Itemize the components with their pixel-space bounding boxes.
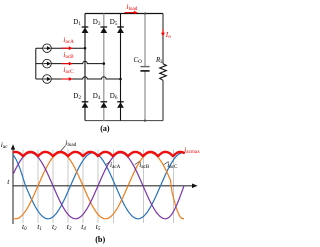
arrow i_acC: [62, 78, 70, 80]
label t4: [81, 223, 86, 232]
wire phase B with hop: [51, 61, 104, 63]
diode D1: [82, 26, 89, 28]
wire top rail: [85, 13, 163, 15]
diode D6: [117, 101, 124, 103]
axis vertical i_ac: [12, 149, 14, 224]
wire capacitor branch: [144, 14, 146, 121]
wire load branch right: [162, 14, 164, 121]
label t1: [37, 223, 42, 232]
leader i_acA: [106, 161, 111, 164]
resistor R_L zigzag: [160, 64, 167, 81]
node phase B junction: [103, 62, 106, 65]
label i_acC: [63, 66, 73, 75]
wire left bus: [35, 48, 37, 79]
label t3: [67, 223, 72, 232]
label I_o: [166, 31, 171, 40]
node phase A junction: [84, 47, 87, 50]
diode D2: [82, 101, 89, 103]
label t axis: [7, 178, 9, 186]
label C_O: [134, 58, 142, 65]
label i_load wave: [65, 139, 76, 148]
current source B: [43, 59, 52, 68]
caption (b): [95, 236, 105, 244]
current source C: [43, 75, 52, 84]
diode D5: [117, 26, 124, 28]
label i_load: [126, 3, 137, 12]
label i_acB: [63, 51, 73, 60]
label D1: [73, 19, 81, 27]
arrow i_acB: [62, 63, 70, 65]
label D6: [110, 93, 118, 101]
arrow I_o: [162, 29, 164, 33]
arrow i_load: [125, 12, 135, 14]
label D5: [110, 19, 118, 27]
wire bridge leg 1: [84, 14, 86, 121]
label t5: [96, 223, 101, 232]
label i_acA wave: [110, 161, 120, 170]
label D2: [73, 93, 81, 101]
label i_acA: [63, 36, 74, 45]
node capacitor bottom: [144, 120, 146, 122]
label i_acC wave: [167, 161, 177, 170]
wire phase A: [51, 47, 85, 49]
wire bridge leg 2: [103, 14, 105, 121]
caption (a): [100, 125, 109, 133]
label i_ac axis: [1, 141, 8, 150]
label R_L: [156, 58, 163, 65]
label t2: [52, 223, 57, 232]
node phase C junction: [119, 78, 122, 81]
label t0: [22, 223, 27, 232]
diode D3: [101, 26, 108, 28]
leader i_acB: [135, 161, 140, 164]
label i_acmax: [184, 147, 200, 155]
capacitor C_O plates: [140, 66, 149, 68]
grid time lines: [22, 150, 24, 224]
curve i_load red envelope: [13, 152, 185, 156]
label D3: [93, 19, 101, 27]
leader i_load: [61, 145, 66, 151]
leader i_acC: [164, 161, 169, 164]
node capacitor top: [144, 12, 146, 14]
wire bridge leg 3: [120, 14, 122, 121]
diode D4: [101, 101, 108, 103]
label i_acB wave: [139, 161, 149, 170]
curve i_acC purple: [13, 153, 184, 219]
wire bottom rail: [85, 120, 163, 122]
axis horizontal t: [13, 185, 193, 187]
curve i_acB orange: [13, 153, 184, 219]
curve i_acA blue: [13, 153, 184, 219]
wire phase C with hops: [51, 77, 120, 79]
label D4: [93, 93, 101, 101]
arrow i_acA: [62, 47, 70, 49]
current source A: [43, 44, 52, 53]
